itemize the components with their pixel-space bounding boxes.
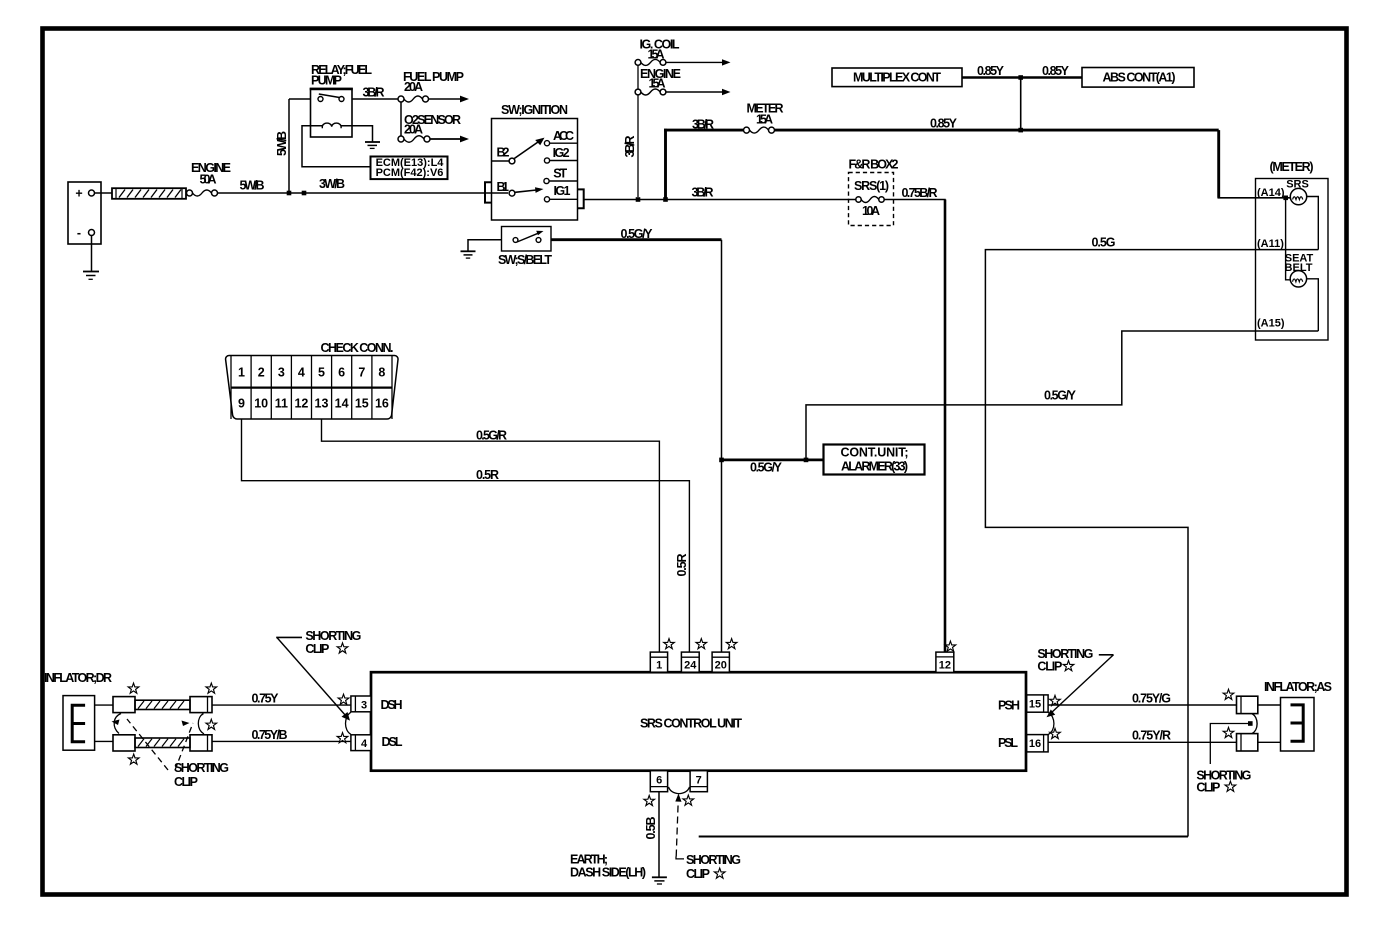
wire 0.75Y/G xyxy=(1048,704,1236,706)
wire SRS lamp right leg xyxy=(1307,197,1319,250)
svg-text:(A11): (A11) xyxy=(1257,238,1284,250)
svg-text:3B/R: 3B/R xyxy=(363,86,385,100)
wire thick corner down to (METER) A14 xyxy=(1217,130,1220,198)
pin 7 xyxy=(690,771,707,792)
fuse ENGINE 15A xyxy=(635,67,730,95)
svg-text:3W/B: 3W/B xyxy=(319,177,345,191)
svg-text:16: 16 xyxy=(1029,738,1041,750)
svg-text:14: 14 xyxy=(335,397,349,411)
wire 0.75Y xyxy=(212,704,351,706)
pin 3 xyxy=(351,696,371,712)
svg-text:3B/R: 3B/R xyxy=(692,186,714,200)
svg-text:0.5G/Y: 0.5G/Y xyxy=(750,461,783,475)
svg-text:INFLATOR;DR: INFLATOR;DR xyxy=(44,671,112,685)
svg-text:1: 1 xyxy=(656,660,662,672)
fuse O2SENSOR 20A xyxy=(398,113,469,142)
inflator INFLATOR;DR xyxy=(44,671,112,750)
svg-text:0.85Y: 0.85Y xyxy=(1042,64,1070,78)
box MULTIPLEX CONT xyxy=(832,68,962,87)
shorting clip arc pins 6-7 xyxy=(669,787,690,794)
ground battery xyxy=(83,272,99,280)
fuse ENGINE 50A xyxy=(187,161,232,196)
battery xyxy=(68,182,101,244)
svg-text:CONT.UNIT;: CONT.UNIT; xyxy=(841,446,909,460)
pin 6 xyxy=(650,771,667,792)
svg-text:8: 8 xyxy=(378,366,385,380)
svg-text:SHORTING: SHORTING xyxy=(686,853,741,867)
svg-text:PCM(F42):V6: PCM(F42):V6 xyxy=(376,167,444,179)
wire relay coil to ECM xyxy=(302,126,371,167)
svg-text:0.5G: 0.5G xyxy=(1092,236,1116,250)
svg-text:DSL: DSL xyxy=(382,735,403,749)
wire to O2 sensor fuse xyxy=(400,102,402,136)
svg-text:B1: B1 xyxy=(497,180,510,194)
wire seat belt lamp right leg xyxy=(1307,279,1319,331)
svg-text:MULTIPLEX CONT: MULTIPLEX CONT xyxy=(853,71,941,85)
pin 24 xyxy=(681,652,699,672)
svg-text:B2: B2 xyxy=(497,146,510,160)
shorting clip hook AS xyxy=(1252,714,1257,734)
meter cluster box (METER) xyxy=(1256,160,1329,340)
wire AS connector to inflator xyxy=(1258,704,1281,706)
ground relay coil xyxy=(365,142,380,148)
fuse box F&R BOX2 (dashed) xyxy=(849,158,899,226)
shorting clip arc pins 15-16 xyxy=(1048,713,1054,735)
svg-text:ALARMER(33): ALARMER(33) xyxy=(841,460,908,474)
switch SW;S/BELT xyxy=(498,227,552,268)
svg-text:CLIP: CLIP xyxy=(686,867,710,881)
relay RELAY;FUEL PUMP xyxy=(310,63,373,137)
junction dot xyxy=(636,197,641,202)
svg-text:0.5R: 0.5R xyxy=(476,468,499,482)
wire 0.75B/R xyxy=(884,199,946,201)
svg-text:ST: ST xyxy=(553,167,567,181)
svg-text:SW;S/BELT: SW;S/BELT xyxy=(498,253,552,267)
cable hatched DR bottom xyxy=(135,738,190,748)
box SRS CONTROL UNIT xyxy=(371,672,1026,771)
svg-text:3: 3 xyxy=(278,366,285,380)
svg-text:12: 12 xyxy=(294,397,308,411)
svg-text:20A: 20A xyxy=(404,80,423,94)
junction dot xyxy=(287,191,292,196)
pin 1 xyxy=(650,652,667,672)
svg-text:(A15): (A15) xyxy=(1257,318,1285,330)
wire relay coil to ground xyxy=(341,126,373,142)
wire seat belt switch to ground xyxy=(468,240,502,251)
wire relay to 5W/B vertical xyxy=(289,98,311,100)
svg-text:12: 12 xyxy=(939,660,951,672)
svg-text:7: 7 xyxy=(358,366,365,380)
svg-text:0.75B/R: 0.75B/R xyxy=(902,186,938,200)
connector DR bottom-right xyxy=(190,735,212,751)
wire inflator DR leads xyxy=(95,704,113,706)
svg-text:24: 24 xyxy=(684,660,697,672)
fuse SRS(1) 10A xyxy=(852,179,891,218)
svg-text:50A: 50A xyxy=(200,173,217,187)
svg-text:F&R BOX2: F&R BOX2 xyxy=(849,158,899,172)
junction dot xyxy=(1018,128,1023,133)
svg-text:9: 9 xyxy=(238,397,245,411)
svg-text:SHORTING: SHORTING xyxy=(305,629,361,643)
svg-text:PSL: PSL xyxy=(998,736,1018,750)
svg-text:ABS CONT(A1): ABS CONT(A1) xyxy=(1103,71,1176,85)
svg-text:IG2: IG2 xyxy=(553,146,570,160)
svg-text:SRS CONTROL UNIT: SRS CONTROL UNIT xyxy=(640,717,742,731)
svg-text:CHECK CONN.: CHECK CONN. xyxy=(321,341,394,355)
svg-text:0.75Y/R: 0.75Y/R xyxy=(1132,728,1171,742)
fusible link cable (hatched) xyxy=(112,188,186,199)
ground EARTH;DASH SIDE(LH) xyxy=(570,853,667,885)
ECM/PCM box xyxy=(371,157,448,180)
label shorting clip DR xyxy=(127,719,229,789)
svg-text:0.75Y: 0.75Y xyxy=(252,692,280,706)
svg-text:13: 13 xyxy=(315,397,329,411)
svg-text:20: 20 xyxy=(715,660,727,672)
wire thick riser to METER line xyxy=(664,129,667,198)
svg-text:(METER): (METER) xyxy=(1270,160,1314,174)
wire 3B/R main from IG1 xyxy=(584,199,856,201)
junction dot xyxy=(1018,75,1023,80)
svg-text:IG1: IG1 xyxy=(554,184,571,198)
pin 4 xyxy=(351,735,371,751)
pin 12 xyxy=(936,652,954,672)
svg-text:PUMP: PUMP xyxy=(311,74,342,88)
box CONT.UNIT;ALARMER(33) xyxy=(824,445,925,475)
wire battery plus to fusible link xyxy=(95,192,113,194)
wire 0.5G meter A11 to SRS pin 7 xyxy=(985,250,1318,837)
label shorting clip left (pins 3-4) xyxy=(276,629,361,721)
wire 3B/R relay to fuel pump fuse xyxy=(352,98,398,100)
fuse FUEL PUMP 20A xyxy=(398,70,469,102)
wire A14 dot down to seat belt lamp xyxy=(1286,198,1291,280)
wire thick 0.5G/Y to alarm unit xyxy=(722,459,824,462)
svg-text:SHORTING: SHORTING xyxy=(174,761,229,775)
svg-text:0.75Y/G: 0.75Y/G xyxy=(1132,692,1171,706)
svg-text:3B/R: 3B/R xyxy=(623,136,637,158)
svg-text:-: - xyxy=(77,226,81,240)
pin 15 xyxy=(1027,695,1048,712)
svg-text:10: 10 xyxy=(254,397,268,411)
wire thick 0.75B/R vertical to pin 12 xyxy=(944,200,947,653)
wire 3B/R vertical to top fuses xyxy=(637,62,639,197)
svg-text:4: 4 xyxy=(361,738,368,750)
shorting clip hooks DR xyxy=(112,714,205,735)
wire 0.5G/R from check conn pin13 to SRS pin 1 xyxy=(322,419,660,652)
svg-text:0.85Y: 0.85Y xyxy=(977,64,1005,78)
cable hatched DR top xyxy=(135,700,190,709)
svg-text:4: 4 xyxy=(298,366,305,380)
shorting clip arc pins 3-4 xyxy=(346,712,351,734)
label shorting clip AS xyxy=(1196,721,1252,794)
svg-text:0.85Y: 0.85Y xyxy=(930,117,958,131)
lamp SEAT BELT xyxy=(1285,253,1314,287)
svg-text:SW;IGNITION: SW;IGNITION xyxy=(501,103,568,117)
svg-text:CLIP: CLIP xyxy=(1196,781,1220,795)
svg-text:0.5G/Y: 0.5G/Y xyxy=(1044,389,1077,403)
connector DR top-right xyxy=(190,697,212,713)
wire 0.85Y multiplex to abs xyxy=(962,76,1082,79)
svg-text:15A: 15A xyxy=(756,113,773,127)
svg-text:SRS(1): SRS(1) xyxy=(854,179,889,193)
label shorting clip right (pins 15-16) xyxy=(1037,647,1113,717)
svg-text:5W/B: 5W/B xyxy=(240,179,265,193)
svg-text:0.75Y/B: 0.75Y/B xyxy=(252,728,288,742)
svg-text:CLIP: CLIP xyxy=(174,775,198,789)
svg-text:6: 6 xyxy=(338,366,345,380)
wire thick METER feed left segment xyxy=(664,129,747,132)
svg-text:6: 6 xyxy=(656,775,662,787)
label shorting clip bottom (pins 6-7) xyxy=(675,794,741,882)
connector CHECK CONN. xyxy=(226,341,398,419)
junction dot xyxy=(663,197,668,202)
wire pin6 to earth xyxy=(658,792,660,877)
wire 0.85Y vertical xyxy=(1020,78,1022,131)
wire 5W/B vertical to relay xyxy=(288,99,290,192)
svg-text:5: 5 xyxy=(318,366,325,380)
pin 20 xyxy=(712,652,729,672)
wire 0.75Y/R xyxy=(1048,741,1236,743)
svg-text:15: 15 xyxy=(1029,699,1041,711)
junction dot xyxy=(804,458,809,463)
svg-text:+: + xyxy=(75,187,82,201)
svg-text:0.5G/Y: 0.5G/Y xyxy=(621,227,654,241)
lamp SRS xyxy=(1286,179,1309,205)
wire thick 0.85Y to meter box corner xyxy=(775,129,1219,132)
junction dot A14 xyxy=(1283,196,1288,201)
star marks xyxy=(128,639,1236,879)
svg-text:20A: 20A xyxy=(404,123,423,137)
svg-text:EARTH;: EARTH; xyxy=(570,853,608,867)
svg-text:DASH SIDE(LH): DASH SIDE(LH) xyxy=(570,866,646,880)
svg-text:ACC: ACC xyxy=(553,129,574,143)
junction dot xyxy=(719,458,724,463)
svg-text:16: 16 xyxy=(375,397,389,411)
fuse METER 15A xyxy=(744,102,784,134)
junction dot xyxy=(302,191,307,196)
pin 16 xyxy=(1027,735,1048,752)
wire 0.5G/Y vertical to pin 20 xyxy=(721,240,723,653)
svg-text:11: 11 xyxy=(275,397,288,411)
svg-text:5W/B: 5W/B xyxy=(275,131,289,156)
wire battery minus to ground xyxy=(91,236,93,272)
svg-text:1: 1 xyxy=(238,366,245,380)
wire 0.5G/Y route to meter A15 xyxy=(806,331,1318,460)
wire A14 horizontal xyxy=(1218,197,1292,199)
connector AS top xyxy=(1237,696,1258,713)
connector AS bottom xyxy=(1237,734,1258,751)
svg-text:3: 3 xyxy=(361,700,367,712)
wire 0.75Y/B xyxy=(212,740,351,742)
switch SW;IGNITION xyxy=(485,103,584,220)
wire 0.5B pin7 horizontal xyxy=(699,836,1188,838)
fuse IG. COIL 15A xyxy=(635,38,730,66)
connector DR bottom-left xyxy=(113,735,135,751)
svg-text:PSH: PSH xyxy=(998,699,1020,713)
svg-text:3B/R: 3B/R xyxy=(692,118,714,132)
wire thick 0.5G/Y from seat belt switch xyxy=(551,238,722,241)
svg-text:DSH: DSH xyxy=(381,698,403,712)
connector DR top-left xyxy=(113,697,135,713)
svg-text:0.5R: 0.5R xyxy=(675,554,689,577)
box ABS CONT(A1) xyxy=(1082,68,1194,88)
svg-text:(A14): (A14) xyxy=(1257,187,1285,199)
wire 0.5R from check conn pin9 to SRS pin 24 xyxy=(242,419,690,652)
svg-text:7: 7 xyxy=(696,775,702,787)
ground seat belt switch xyxy=(461,251,476,258)
svg-text:0.5G/R: 0.5G/R xyxy=(476,429,507,443)
inflator INFLATOR;AS xyxy=(1264,680,1332,751)
svg-text:15: 15 xyxy=(355,397,369,411)
svg-text:CLIP: CLIP xyxy=(305,642,329,656)
svg-text:2: 2 xyxy=(258,366,265,380)
svg-text:INFLATOR;AS: INFLATOR;AS xyxy=(1264,680,1332,694)
svg-text:10A: 10A xyxy=(862,204,880,218)
wire 5W/B 3W/B main to ignition B1 xyxy=(218,192,509,194)
svg-text:CLIP: CLIP xyxy=(1037,660,1062,674)
svg-text:0.5B: 0.5B xyxy=(644,817,658,840)
